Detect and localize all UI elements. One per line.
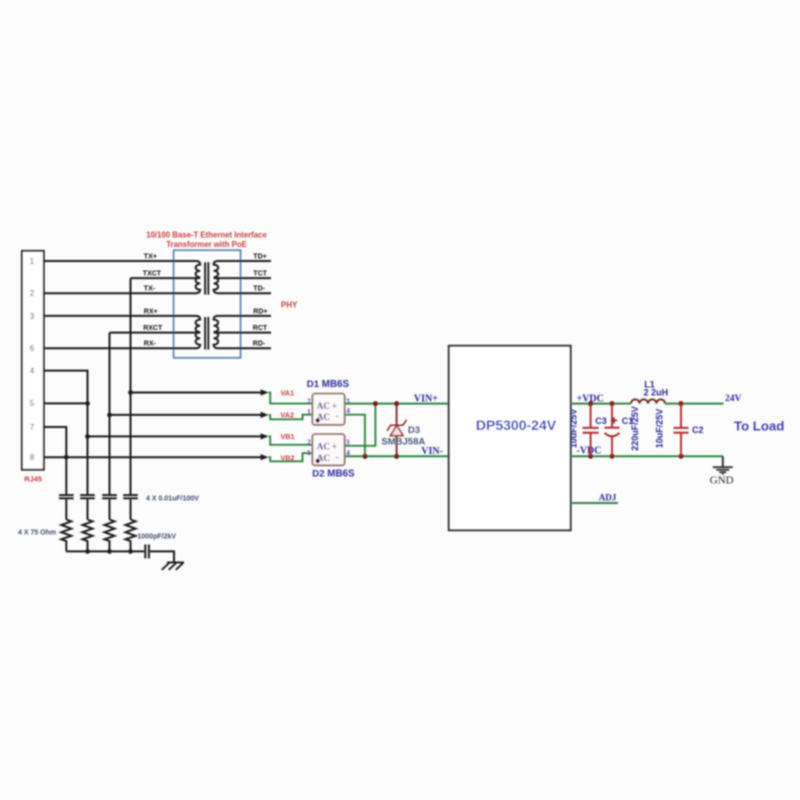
bridge rectifier D1 body (312, 394, 344, 425)
wire RXCT horizontal (110, 332, 201, 334)
ground symbol right (713, 466, 733, 468)
junction rail R1c (107, 549, 112, 554)
wire bottom rail (66, 550, 144, 552)
junction C2/-VDC (678, 454, 683, 459)
svg-text:Transformer with PoE: Transformer with PoE (166, 240, 247, 249)
wire VA2 green link to D1 pin1 (269, 415, 313, 420)
svg-text:1: 1 (307, 407, 311, 416)
transformer T1 secondary winding bottom (214, 316, 219, 348)
transformer T1 secondary winding top (214, 261, 219, 293)
wire VIN- rail (D2 pin4 to DP5300) (345, 455, 449, 457)
svg-text:2: 2 (30, 289, 35, 298)
svg-text:4: 4 (30, 366, 35, 375)
C1 plus mark (611, 417, 617, 423)
wire GND drop (722, 456, 724, 466)
capacitor C1 polarized (611, 404, 613, 427)
wire VA2 row (110, 414, 262, 416)
junction VA2 (107, 413, 112, 418)
svg-text:TX+: TX+ (144, 253, 157, 260)
transformer T1 box outline (174, 250, 241, 358)
svg-text:D3: D3 (408, 425, 420, 436)
svg-text:PHY: PHY (281, 301, 298, 310)
junction C2/+VDC (678, 401, 683, 406)
svg-text:2 2uH: 2 2uH (644, 388, 669, 398)
svg-text:MB6S: MB6S (327, 469, 355, 480)
wire TD- (218, 292, 271, 294)
junction pins 4-5 (85, 401, 90, 406)
wire ADJ stub (571, 502, 618, 504)
svg-text:3: 3 (30, 312, 35, 321)
svg-text:8: 8 (30, 453, 35, 462)
svg-text:D1: D1 (307, 379, 320, 390)
TVS diode D3 leads (396, 404, 398, 426)
wire VB2 green link to D2 pin1 (269, 453, 313, 461)
wire VIN+ rail (D1 pin3 to DP5300) (345, 403, 449, 405)
transformer T1 primary winding top (196, 261, 201, 293)
svg-text:RX+: RX+ (144, 308, 158, 315)
svg-text:RD-: RD- (253, 341, 266, 348)
wire RD- (218, 347, 271, 349)
svg-text:SMBJ58A: SMBJ58A (381, 437, 425, 448)
junction D3/VIN- (394, 454, 399, 459)
svg-text:6: 6 (30, 344, 35, 353)
junction D2pin3/VIN+ (373, 401, 378, 406)
junction C1/-VDC (609, 454, 614, 459)
transformer T1 core top (204, 262, 206, 294)
svg-text:ADJ: ADJ (599, 493, 617, 503)
svg-text:TXCT: TXCT (143, 271, 162, 278)
wire pin8 / VB2 row (44, 456, 262, 458)
svg-text:1: 1 (30, 257, 35, 266)
svg-text:RX-: RX- (144, 341, 157, 348)
capacitor C4c (102, 494, 117, 496)
svg-text:4: 4 (346, 406, 350, 415)
arrow VA1 (261, 389, 269, 395)
connector J1 RJ45 body (22, 251, 44, 470)
wire RX+ (pin3 to transformer) (44, 315, 197, 317)
svg-text:-: - (336, 452, 339, 462)
svg-text:MB6S: MB6S (322, 379, 350, 390)
TVS diode D3 triangle (391, 426, 404, 436)
svg-text:2: 2 (307, 438, 311, 447)
wire D1 pin4 to VIN- (345, 415, 365, 457)
junction C1/+VDC (609, 401, 614, 406)
capacitor C4a (0.01uF) (59, 494, 74, 496)
wire RX- (pin6 to transformer) (44, 347, 197, 349)
svg-text:2: 2 (307, 396, 311, 405)
wire C5 to earth (150, 551, 174, 562)
svg-text:TX-: TX- (144, 286, 156, 293)
wire +VDC rail (571, 403, 631, 405)
transformer T1 core bottom (204, 317, 206, 350)
svg-text:1000pF/2kV: 1000pF/2kV (138, 533, 177, 540)
wire pin5 row (44, 402, 88, 404)
svg-text:10uF/25V: 10uF/25V (655, 409, 665, 449)
resistor R1b (83, 520, 93, 552)
svg-text:7: 7 (30, 423, 35, 432)
svg-text:RXCT: RXCT (143, 325, 163, 332)
wire TX- (pin2 to transformer) (44, 292, 197, 294)
svg-text:-: - (336, 411, 339, 421)
wire RXCT vertical drop to cap C4c (109, 333, 111, 495)
capacitor C3 (590, 404, 592, 427)
svg-text:C3: C3 (595, 416, 607, 426)
capacitor C2 (680, 404, 682, 427)
arrow VB2 (261, 454, 269, 460)
svg-text:10/100 Base-T Ethernet Interfa: 10/100 Base-T Ethernet Interface (146, 230, 267, 239)
svg-text:10uF/25V: 10uF/25V (568, 409, 578, 449)
wire VB1 green link to D2 pin2 (269, 436, 313, 444)
svg-text:D2: D2 (312, 469, 324, 480)
wire D2 pin3 to VIN+ (345, 404, 376, 446)
TVS diode D3 cathode bar with wings (387, 420, 406, 431)
D1 pin1 dot (316, 418, 320, 422)
wire pin7 to junction (44, 427, 67, 495)
wire pin4 to junction (44, 371, 88, 495)
wire -VDC rail (571, 455, 723, 457)
D2 pin1 dot (316, 459, 320, 463)
svg-text:VIN+: VIN+ (414, 394, 438, 405)
junction VB1 (85, 434, 90, 439)
svg-text:DP5300-24V: DP5300-24V (476, 417, 557, 433)
wire TD+ (218, 260, 271, 262)
svg-text:RD+: RD+ (253, 308, 267, 315)
bridge rectifier D2 body (312, 434, 344, 465)
junction D3/VIN+ (394, 401, 399, 406)
resistor R1d (126, 520, 136, 552)
inductor L1 (631, 399, 665, 403)
wire RCT (214, 332, 271, 334)
junction C3/-VDC (588, 454, 593, 459)
junction rail R1b (85, 549, 90, 554)
wire TCT (214, 277, 271, 279)
svg-text:5: 5 (30, 399, 35, 408)
svg-text:GND: GND (710, 475, 734, 487)
resistor R1a (75 Ohm) (61, 520, 71, 552)
svg-text:TCT: TCT (253, 271, 267, 278)
svg-text:RCT: RCT (253, 325, 268, 332)
svg-text:+: + (332, 442, 337, 452)
svg-text:TD+: TD+ (253, 253, 266, 260)
junction rail R1d (128, 549, 133, 554)
svg-text:RJ45: RJ45 (24, 475, 42, 484)
wire TXCT vertical drop to cap C4d (130, 278, 132, 495)
wire RD+ (218, 315, 271, 317)
svg-text:1: 1 (307, 448, 311, 457)
svg-text:+: + (332, 401, 337, 411)
wire TX+ (pin1 to transformer) (44, 260, 197, 262)
junction C3/+VDC (588, 401, 593, 406)
wire VA1 row (131, 392, 262, 394)
arrow VA2 (261, 412, 269, 418)
junction VA1 (128, 390, 133, 395)
wire VA1 green link to D1 pin2 (269, 393, 313, 404)
svg-text:VA1: VA1 (281, 388, 294, 397)
capacitor C4b (80, 494, 95, 496)
svg-text:AC: AC (317, 442, 330, 452)
arrow VB1 (261, 433, 269, 439)
svg-text:AC: AC (317, 401, 330, 411)
wire VB1 row (88, 435, 262, 437)
earth ground symbol left (167, 561, 184, 563)
wire TXCT horizontal (131, 277, 201, 279)
svg-text:VB1: VB1 (281, 432, 295, 441)
svg-text:220uF/25V: 220uF/25V (630, 406, 640, 451)
transformer T1 primary winding bottom (196, 316, 201, 348)
resistor R1c (105, 520, 115, 552)
svg-text:C2: C2 (692, 425, 704, 435)
svg-text:24V: 24V (725, 394, 742, 404)
svg-text:4 X 0.01uF/100V: 4 X 0.01uF/100V (146, 495, 199, 502)
module U1 DP5300-24V body (449, 346, 571, 530)
junction D1pin4/VIN- (362, 454, 367, 459)
junction pins 7-8 (64, 455, 69, 460)
svg-text:TD-: TD- (253, 286, 265, 293)
capacitor C4d (123, 494, 138, 496)
capacitor C5 1000pF plates (144, 544, 146, 558)
svg-text:To Load: To Load (734, 419, 784, 434)
svg-text:4 X 75 Ohm: 4 X 75 Ohm (18, 529, 56, 536)
